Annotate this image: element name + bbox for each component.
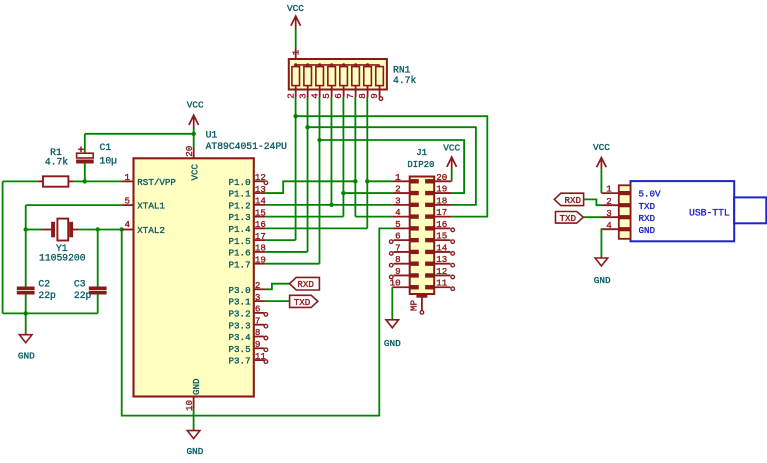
svg-text:TXD: TXD — [639, 201, 656, 212]
svg-text:4.7k: 4.7k — [393, 75, 416, 86]
global label RXD (at U1) — [290, 277, 320, 290]
RN1 bus junction dot 4 — [318, 63, 321, 66]
resistor R1 4.7k — [38, 176, 74, 186]
capacitor C3 22p — [89, 230, 106, 314]
svg-text:RST/VPP: RST/VPP — [137, 177, 176, 188]
wire P3.1 to TXD label — [265, 300, 289, 302]
J1 pin 19 pad bar (right) — [426, 191, 435, 194]
RN1 element resistor 5 — [328, 65, 336, 97]
ground symbol (below J1) — [386, 318, 399, 328]
svg-text:4: 4 — [606, 220, 612, 231]
wire RXD label to USB-TTL pin 2 — [584, 199, 603, 205]
USB-TTL connector pin 3 stub — [602, 216, 619, 218]
junction ground rail at GND symbol — [24, 311, 28, 315]
RN1 bus junction dot 2 — [294, 63, 297, 66]
wire RN1 pin5 down to P1.2/J1.3 row — [330, 97, 332, 205]
global label TXD (at U1) — [290, 295, 318, 308]
U1 pin 13 stub (P1.1) — [254, 192, 266, 194]
J1 MP stub with open-circle — [420, 297, 424, 314]
J1 pin 1 pad bar (left) — [410, 180, 419, 183]
junction RN1 pin5 on P1.2 row — [329, 203, 333, 207]
USB-TTL connector pin 4 pad bar — [619, 228, 631, 231]
ground symbol (USB-TTL) — [595, 256, 608, 266]
RN1 element resistor 6 — [340, 65, 348, 97]
svg-text:P1.3: P1.3 — [229, 212, 251, 223]
junction at VCC above U1 pin 20 — [192, 132, 196, 136]
J1 pin 2 pad bar (left) — [410, 191, 419, 194]
svg-text:GND: GND — [18, 350, 35, 361]
capacitor C1 10u (polarized) — [77, 134, 94, 182]
wire RN1 pin3 net: down, branch to J1 pin18, to U1 P1.6 — [265, 97, 476, 252]
U1 pin 9 stub with open-circle (P3.5 unconnected) — [254, 347, 264, 349]
svg-text:TXD: TXD — [560, 213, 577, 224]
RN1 element resistor 4 — [316, 65, 324, 97]
U1 pin 12 stub with open-circle (P1.0 unconnected) — [254, 180, 264, 182]
capacitor C2 22p — [17, 230, 34, 314]
RN1 element resistor 2 — [292, 65, 300, 97]
svg-text:XTAL2: XTAL2 — [137, 225, 165, 236]
junction RN1 pin7 at P1.1 row — [353, 179, 357, 183]
J1 pin 3 stub — [392, 204, 409, 206]
J1 pin 8 pad bar (left) — [410, 262, 419, 265]
U1 pin 14 stub (P1.2) — [254, 204, 266, 206]
svg-text:P1.1: P1.1 — [229, 189, 252, 200]
J1 pin 17 stub — [434, 216, 451, 218]
wire VCC to RN1 pin 1 — [295, 28, 297, 48]
svg-text:11059200: 11059200 — [39, 253, 86, 264]
J1 pin 14 pad bar (right) — [426, 250, 435, 253]
RN1 element resistor 7 — [352, 65, 360, 97]
junction XTAL2 net down-wire — [120, 227, 124, 231]
wire XTAL1 from U1 left then down — [26, 205, 122, 229]
J1 pin 7 stub with open-circle — [394, 251, 410, 253]
svg-text:C3: C3 — [74, 278, 86, 289]
U1 pin 15 stub (P1.3) — [254, 216, 266, 218]
wire RN1 pin4 net: down, branch to J1 pin19, to U1 P1.7 — [265, 97, 464, 264]
svg-text:22p: 22p — [74, 290, 92, 301]
J1 pin 4 stub — [392, 216, 409, 218]
J1 pin 19 stub — [434, 192, 451, 194]
svg-text:P3.7: P3.7 — [229, 356, 251, 367]
wire Y1 left segment — [26, 229, 41, 231]
junction XTAL1 wire joins Y1 left / C2 — [24, 227, 28, 231]
svg-text:RXD: RXD — [297, 279, 314, 290]
svg-text:C2: C2 — [38, 278, 50, 289]
svg-text:RXD: RXD — [639, 213, 656, 224]
svg-text:GND: GND — [594, 275, 611, 286]
wire USB-TTL pin 4 down to ground — [600, 229, 603, 256]
USB-TTL connector pin 4 stub — [602, 228, 619, 230]
crystal Y1 — [41, 219, 79, 241]
svg-text:P1.2: P1.2 — [229, 200, 251, 211]
svg-text:P3.2: P3.2 — [229, 309, 251, 320]
junction RN1 pin2 branch — [293, 114, 297, 118]
J1 pin 6 stub with open-circle — [394, 239, 410, 241]
wire VCC stem down to U1 pin 20 — [193, 134, 195, 148]
svg-text:4.7k: 4.7k — [45, 156, 68, 167]
J1 pin 9 stub with open-circle — [394, 274, 410, 276]
svg-text:VCC: VCC — [593, 142, 610, 153]
power flag VCC (at J1 pin 20) — [443, 143, 460, 182]
svg-text:DIP20: DIP20 — [407, 160, 434, 170]
J1 pin 5 pad bar (left) — [410, 227, 419, 230]
J1 pin 2 stub — [392, 192, 409, 194]
USB-TTL connector pin 3 pad bar — [619, 216, 631, 219]
J1 pin 6 pad bar (left) — [410, 238, 419, 241]
svg-text:USB-TTL: USB-TTL — [689, 208, 730, 219]
J1 pin 12 stub with open-circle — [434, 274, 450, 276]
wire VCC rail from C1 top to U1 pin 20 — [85, 133, 194, 135]
RN1 bus junction dot 6 — [342, 63, 345, 66]
J1 pin 4 pad bar (left) — [410, 215, 419, 218]
svg-text:VCC: VCC — [443, 143, 460, 154]
J1 pin 13 pad bar (right) — [426, 262, 435, 265]
power flag VCC (top of chip, above C1/U1) — [187, 100, 204, 134]
svg-text:10µ: 10µ — [100, 155, 118, 166]
junction RN1 pin8 at J1 pin1 row — [365, 179, 369, 183]
J1 pin 15 stub with open-circle — [434, 239, 450, 241]
U1 pin 6 stub with open-circle (P3.2 unconnected) — [254, 312, 264, 314]
J1 pin 15 pad bar (right) — [426, 238, 435, 241]
J1 pin 3 pad bar (left) — [410, 203, 419, 206]
svg-text:J1: J1 — [416, 148, 427, 158]
wire U1 pin 10 down to ground — [193, 409, 195, 429]
wire VCC down to USB-TTL pin 1 — [600, 169, 602, 193]
USB-TTL connector pin 1 pad bar — [619, 192, 631, 195]
U1 pin 8 stub with open-circle (P3.4 unconnected) — [254, 336, 264, 338]
RN1 common bus — [296, 64, 380, 66]
svg-text:2: 2 — [285, 93, 296, 99]
svg-text:VCC: VCC — [187, 100, 204, 111]
wire RN1 pin8 net: down past J1.1 branch, left to U1 P1.4 — [265, 97, 392, 228]
J1 pin 9 pad bar (left) — [410, 274, 419, 277]
USB-TTL 4-pin connector body — [619, 185, 631, 239]
wire Y1 right to U1 XTAL2 — [79, 229, 122, 231]
J1 pin 18 stub — [434, 204, 451, 206]
wire P3.0 to RXD label — [265, 284, 289, 290]
RN1 pin 1 stub — [295, 48, 297, 65]
U1 pin 7 stub with open-circle (P3.3 unconnected) — [254, 324, 264, 326]
J1 pin 18 pad bar (right) — [426, 203, 435, 206]
J1 mounting pin MP bar — [417, 294, 427, 297]
junction RN1 pin6 at J1 pin2 row — [341, 191, 345, 195]
svg-text:P3.0: P3.0 — [229, 285, 251, 296]
junction C1 bottom on RST net — [83, 179, 87, 183]
wire RN1 pin2 net: down, branch to J1 pin17, to U1 P1.5 — [265, 97, 487, 240]
wire R1 right to U1 RST/VPP — [74, 180, 122, 182]
RN1 element resistor 9 — [376, 65, 384, 97]
module USB plug — [734, 197, 766, 223]
junction C3 top on XTAL2 net — [96, 227, 100, 231]
svg-text:4: 4 — [124, 219, 130, 230]
ground symbol (left) — [19, 313, 32, 342]
svg-text:XTAL1: XTAL1 — [137, 201, 165, 212]
U1 pin 10 stub (GND, bottom) — [193, 396, 195, 409]
RN1 element resistor 8 — [364, 65, 372, 97]
U1 pin 5 stub (XTAL1) — [122, 204, 134, 206]
RN1 pin 9 open-circle (unconnected) — [379, 97, 383, 101]
power flag VCC (above RN1) — [287, 3, 304, 28]
J1 pin 8 stub with open-circle — [394, 263, 410, 265]
U1 pin 18 stub (P1.6) — [254, 251, 266, 253]
RN1 element resistor 3 — [304, 65, 312, 97]
J1 pin 17 pad bar (right) — [426, 215, 435, 218]
svg-text:9: 9 — [369, 93, 380, 99]
wire U1 P1.2 to J1 pin 3 — [265, 204, 392, 206]
svg-text:P3.4: P3.4 — [229, 332, 252, 343]
module U2 USB-TTL outline — [631, 181, 735, 241]
svg-text:U1: U1 — [206, 129, 218, 140]
J1 pin 1 stub — [392, 180, 409, 182]
U1 pin 11 stub with open-circle (P3.7 unconnected) — [254, 359, 264, 361]
svg-text:20: 20 — [184, 146, 195, 157]
svg-text:5.0V: 5.0V — [639, 189, 662, 200]
U1 pin 4 stub (XTAL2) — [122, 229, 134, 231]
svg-text:P1.7: P1.7 — [229, 259, 251, 270]
J1 pin 10 pad bar (left) — [410, 286, 419, 289]
USB-TTL connector pin 2 pad bar — [619, 204, 631, 207]
svg-text:GND: GND — [639, 225, 656, 236]
J1 pin 14 stub with open-circle — [434, 251, 450, 253]
J1 pin 12 pad bar (right) — [426, 274, 435, 277]
J1 pin 7 pad bar (left) — [410, 250, 419, 253]
U1 pin 1 stub (RST/VPP) — [122, 180, 134, 182]
wire RN1 pin7 net: down past P1.1 branch, right to J1 pin4 — [355, 97, 392, 217]
svg-text:TXD: TXD — [294, 297, 311, 308]
svg-text:5: 5 — [124, 196, 130, 207]
wire XTAL2 long route to J1 pin 5 (down, across bottom, up) — [122, 228, 393, 415]
J1 pin 16 stub with open-circle — [434, 227, 450, 229]
svg-text:VCC: VCC — [287, 3, 304, 14]
RN1 bus junction dot 7 — [354, 63, 357, 66]
svg-text:C1: C1 — [100, 142, 112, 153]
USB-TTL connector pin 2 stub — [602, 204, 619, 206]
wire RN1 pin6 net: down past J1.2 branch, left to U1 P1.3 — [265, 97, 392, 217]
junction RN1 pin4 branch — [317, 138, 321, 142]
RN1 bus junction dot 8 — [366, 63, 369, 66]
RN1 bus junction dot 5 — [330, 63, 333, 66]
IC U1 AT89C4051-24PU body — [134, 158, 254, 396]
svg-text:1: 1 — [124, 172, 130, 183]
svg-text:P1.5: P1.5 — [229, 236, 251, 247]
svg-text:GND: GND — [384, 338, 401, 349]
svg-text:2: 2 — [606, 196, 612, 207]
J1 pin 20 pad bar (right) — [426, 180, 435, 183]
svg-text:GND: GND — [191, 378, 202, 395]
J1 pin 20 stub — [434, 180, 451, 182]
U1 pin 3 stub (P3.1) — [254, 300, 266, 302]
svg-text:P3.5: P3.5 — [229, 344, 251, 355]
wire J1 pin 10 down to ground — [391, 287, 393, 318]
J1 pin 16 pad bar (right) — [426, 227, 435, 230]
connector J1 DIP20 body — [410, 177, 435, 295]
svg-text:P3.1: P3.1 — [229, 297, 252, 308]
resistor network RN1 body — [289, 59, 387, 90]
wire R1 left then down left edge — [3, 181, 38, 313]
RN1 bus junction dot 3 — [306, 63, 309, 66]
svg-text:GND: GND — [186, 446, 203, 457]
svg-text:VCC: VCC — [189, 163, 200, 180]
J1 pin 10 stub — [392, 286, 409, 288]
svg-text:AT89C4051-24PU: AT89C4051-24PU — [206, 141, 288, 152]
svg-text:P1.6: P1.6 — [229, 248, 251, 259]
junction RN1 pin3 branch — [305, 125, 309, 129]
svg-text:1: 1 — [606, 184, 612, 195]
power flag VCC (USB-TTL) — [593, 142, 610, 169]
J1 pin 5 stub — [392, 227, 409, 229]
J1 pin 11 stub with open-circle — [434, 286, 450, 288]
J1 pin 13 stub with open-circle — [434, 263, 450, 265]
wire TXD label to USB-TTL pin 3 — [583, 216, 602, 218]
svg-text:1: 1 — [290, 49, 301, 55]
svg-text:P3.3: P3.3 — [229, 320, 251, 331]
svg-text:3: 3 — [297, 93, 308, 99]
svg-text:RXD: RXD — [565, 195, 582, 206]
U1 pin 17 stub (P1.5) — [254, 239, 266, 241]
svg-text:P1.4: P1.4 — [229, 224, 252, 235]
USB-TTL connector pin 1 stub — [602, 192, 619, 194]
svg-text:3: 3 — [606, 208, 612, 219]
J1 pin 11 pad bar (right) — [426, 286, 435, 289]
wire ground rail under C2/C3 — [3, 312, 98, 314]
svg-text:MP: MP — [409, 299, 420, 311]
U1 pin 2 stub (P3.0) — [254, 288, 266, 290]
U1 pin 19 stub (P1.7) — [254, 263, 266, 265]
U1 pin 20 stub (VCC) — [193, 148, 195, 159]
wire U1 P1.1 jog up to J1 pin1 row — [265, 181, 355, 193]
global label TXD (USB-TTL side) — [556, 212, 584, 224]
svg-text:RN1: RN1 — [393, 65, 411, 76]
svg-text:P1.0: P1.0 — [229, 177, 251, 188]
U1 pin 16 stub (P1.4) — [254, 227, 266, 229]
global label RXD (USB-TTL side) — [554, 193, 583, 206]
svg-text:22p: 22p — [38, 290, 56, 301]
ground symbol (below U1) — [187, 429, 200, 439]
